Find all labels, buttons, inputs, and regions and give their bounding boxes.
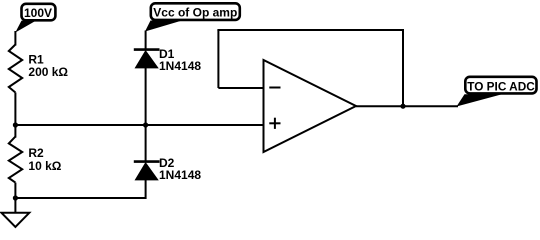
svg-text:1N4148: 1N4148 bbox=[159, 59, 201, 73]
ground bbox=[2, 213, 30, 227]
wire inverting input bbox=[218, 87, 263, 89]
wire feedback right vertical bbox=[402, 30, 404, 106]
wire 100V to R1 bbox=[14, 31, 16, 46]
node C junction dot bbox=[143, 122, 148, 127]
svg-text:R2: R2 bbox=[28, 146, 44, 160]
wire D2 anode to bottom rail bbox=[145, 180, 147, 199]
wire output bbox=[356, 105, 458, 107]
wire D1 anode to node C bbox=[145, 68, 147, 125]
wire node B to ground bbox=[14, 198, 16, 213]
wire R2 to node B bbox=[14, 183, 16, 198]
op-amp U1 bbox=[264, 60, 357, 152]
wire feedback left vertical bbox=[217, 30, 219, 88]
wire node C to D2 cathode bbox=[145, 125, 147, 162]
wire mid rail node A to op-amp + input bbox=[15, 124, 263, 126]
svg-text:100V: 100V bbox=[24, 6, 52, 20]
wire R1 to node A bbox=[14, 93, 16, 126]
callout 100V bbox=[15, 4, 55, 33]
wire node A to R2 bbox=[14, 125, 16, 138]
svg-text:1N4148: 1N4148 bbox=[159, 168, 201, 182]
resistor R1 bbox=[9, 45, 69, 93]
callout TO PIC ADC bbox=[457, 77, 537, 107]
wire Vcc to D1 cathode bbox=[145, 31, 147, 50]
svg-text:Vcc of Op amp: Vcc of Op amp bbox=[153, 6, 237, 20]
resistor R2 bbox=[9, 137, 62, 183]
svg-text:200 kΩ: 200 kΩ bbox=[28, 65, 68, 79]
diode D1 bbox=[134, 47, 202, 73]
wire bottom rail node B to D2 anode bbox=[15, 197, 145, 199]
svg-text:10 kΩ: 10 kΩ bbox=[28, 159, 61, 173]
node B junction dot bbox=[13, 195, 18, 200]
svg-text:TO PIC ADC: TO PIC ADC bbox=[467, 79, 535, 93]
node D output junction dot bbox=[400, 104, 405, 109]
node A junction dot bbox=[13, 122, 18, 127]
callout Vcc of Op amp bbox=[145, 3, 240, 31]
diode D2 bbox=[134, 156, 202, 182]
wire feedback top rail bbox=[217, 29, 404, 31]
